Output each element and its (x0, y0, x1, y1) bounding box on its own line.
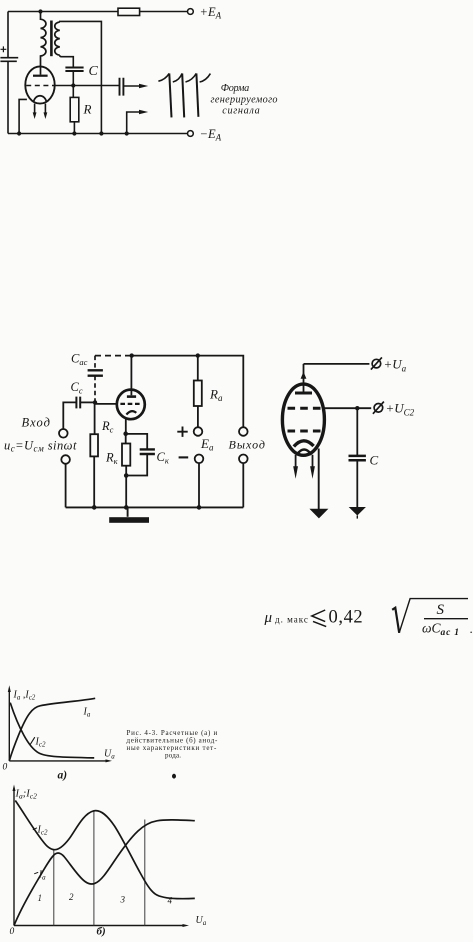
svg-text:4: 4 (168, 896, 173, 906)
svg-text:Ia;Ic2: Ia;Ic2 (15, 789, 38, 801)
node anode tap (130, 353, 134, 357)
tube V2 cathode lead (125, 419, 127, 434)
terminal Ea lower (195, 455, 204, 464)
resistor Rk (122, 444, 130, 466)
wire Rk to node (125, 466, 127, 476)
tube V2 cathode arc (126, 411, 136, 414)
divider line 1 (53, 850, 55, 926)
node grid junction (71, 83, 75, 87)
caption Рис. 4-3 (127, 729, 218, 760)
wire node to bottom rail (125, 476, 127, 508)
x axis graph a (9, 760, 106, 762)
wire top rail solid (132, 356, 244, 428)
transformer core (50, 21, 53, 57)
svg-text:ωCас 1: ωCас 1 (422, 620, 460, 638)
tube V1 cathode arc (33, 96, 46, 103)
svg-text:д. макс: д. макс (275, 615, 309, 625)
node R bottom (72, 131, 76, 135)
wire left rail (7, 12, 9, 58)
capacitor Cac (dashed leads) (94, 356, 96, 370)
tube V3 screen grid row 1 (dashed) (288, 407, 322, 410)
svg-text:Ia ,Ic2: Ia ,Ic2 (13, 690, 36, 702)
svg-text:R: R (83, 102, 92, 117)
wire cathode to ground (318, 449, 320, 510)
wire Cc to grid node (80, 401, 95, 403)
svg-text:генерируемого: генерируемого (211, 94, 278, 105)
wire screen tap to capacitor C (356, 408, 358, 455)
node Ra tap (196, 353, 200, 357)
node Ea bottom (197, 505, 202, 510)
tube V3 anode lead (303, 364, 305, 392)
filament lead right with arrow (312, 455, 314, 468)
tube V2 anode lead (130, 356, 132, 396)
wire Ea lower to bottom rail (198, 463, 200, 508)
resistor (anode supply, unlabeled) (118, 8, 140, 15)
wire screen grid to +Uc2 terminal (324, 407, 371, 409)
transformer winding L1 (41, 12, 46, 75)
svg-text:C: C (89, 64, 99, 79)
wire Ra top (197, 356, 199, 381)
tube V1 grid (dashed) (26, 85, 54, 87)
tube V3 filament arch (297, 450, 312, 455)
curve Ic2 graph b (15, 801, 195, 899)
leader line Ic2 label a (30, 737, 35, 744)
wire cathode to Ck (126, 434, 148, 449)
node Rc bottom (92, 505, 97, 510)
capacitor C (349, 456, 366, 460)
node top tap (38, 9, 42, 13)
svg-text:0: 0 (10, 927, 15, 937)
node screen bypass tap (355, 406, 359, 410)
curve Ic2 graph a (10, 703, 94, 758)
svg-text:сигнала: сигнала (222, 105, 260, 116)
svg-text:uc=Uсм sinωt: uc=Uсм sinωt (4, 438, 77, 453)
filament lead left with arrow (295, 455, 297, 468)
svg-text:+Ua: +Ua (384, 357, 407, 374)
svg-text:μ: μ (264, 610, 273, 626)
tube V3 anode (295, 392, 312, 395)
svg-text:рода.: рода. (165, 752, 181, 760)
tube V2 grid (dashed) (120, 403, 141, 405)
wire top supply rail (8, 11, 118, 13)
wire output upper with arrow (123, 85, 139, 87)
arrow on anode lead (301, 372, 307, 379)
svg-text:Cac: Cac (71, 352, 88, 368)
terminal output upper (239, 427, 248, 436)
node bottom rail center (124, 505, 129, 510)
resistor Rc (90, 434, 98, 456)
leader tick Ic2 label b (33, 828, 37, 830)
wire bottom rail (8, 133, 187, 135)
node output lower (125, 131, 129, 135)
svg-text:C: C (370, 453, 379, 468)
svg-text:Rc: Rc (101, 419, 114, 435)
curve Ia graph b (14, 820, 195, 926)
svg-text:Форма: Форма (221, 83, 250, 94)
wire Ck to node (126, 454, 147, 475)
sawtooth waveform (158, 73, 169, 81)
wire L2 bottom to capacitor C (60, 55, 74, 67)
wire top rail dashed (Cac branch) (95, 355, 132, 357)
svg-text:Ua: Ua (196, 915, 207, 927)
wire cathode node to Rk (125, 434, 127, 444)
tube V1 envelope (25, 66, 54, 103)
terminal -EA (188, 131, 194, 137)
svg-text:+UC2: +UC2 (386, 401, 415, 418)
svg-text:Ic2: Ic2 (35, 737, 46, 749)
label plus (177, 427, 187, 437)
terminal input lower (61, 455, 70, 464)
svg-text:Вход: Вход (22, 416, 51, 430)
svg-text:Ia: Ia (83, 707, 91, 719)
label minus (179, 456, 189, 458)
svg-text:Ic2: Ic2 (37, 825, 48, 837)
terminal circle-slash +Ua (372, 359, 381, 368)
wire grid to node (95, 403, 117, 405)
wire grid node to Rc (94, 402, 96, 434)
svg-text:Ua: Ua (104, 749, 115, 761)
wire to +EA terminal (140, 11, 188, 13)
terminal Ea upper (194, 427, 203, 436)
tube V3 cathode arc (294, 441, 314, 447)
svg-text:Ea: Ea (200, 436, 214, 453)
tube V1 filament lead right with arrow (44, 104, 46, 113)
capacitor Ck (140, 449, 155, 454)
capacitor electrolytic + (0, 58, 18, 62)
wire L2 top to right rail (60, 21, 102, 133)
node Rk bottom (124, 473, 129, 478)
wire Rc to bottom rail (93, 456, 95, 507)
tube V2 anode (127, 395, 136, 398)
ground (127, 507, 129, 516)
ground (cathode) (309, 509, 328, 519)
svg-text:Ia: Ia (38, 870, 46, 882)
svg-text:1: 1 (38, 893, 43, 903)
wire input lower to bottom rail (65, 463, 67, 507)
svg-text:Rк: Rк (105, 451, 119, 467)
divider line 3 (144, 820, 146, 926)
wire bottom rail (66, 506, 244, 508)
wire grid to coupling capacitor (54, 85, 119, 87)
curve Ia graph a (9, 698, 95, 760)
resistor R (70, 97, 79, 121)
node grid junction (93, 400, 97, 404)
svg-text:+EA: +EA (200, 5, 222, 20)
terminal input upper (59, 429, 68, 438)
terminal output lower (239, 455, 248, 464)
bullet mark (172, 774, 176, 779)
tube V1 anode (33, 75, 48, 77)
tube V2 envelope (117, 390, 145, 420)
svg-text:.: . (470, 621, 473, 636)
svg-text:а): а) (58, 770, 68, 782)
svg-text:3: 3 (120, 895, 126, 905)
node right rail bottom (99, 131, 103, 135)
svg-text:Выход: Выход (229, 438, 266, 452)
transformer winding L2 (55, 22, 60, 55)
y axis graph a (8, 691, 10, 761)
terminal +EA (188, 9, 194, 15)
svg-text:0,42: 0,42 (329, 608, 364, 628)
svg-text:Ra: Ra (209, 387, 223, 404)
node cathode bottom (17, 131, 21, 135)
coupling capacitor (output) (120, 78, 124, 96)
wire Ra to Ea terminal (197, 406, 199, 428)
wire output lower with arrow (127, 112, 140, 134)
wire left rail lower (7, 61, 9, 133)
wire output lower to bottom rail (242, 463, 244, 508)
x axis graph b (14, 925, 184, 927)
wire C to grid node (72, 71, 74, 97)
svg-text:Cк: Cк (157, 450, 170, 466)
tube V3 control grid row 2 (dashed) (288, 430, 322, 433)
svg-text:Cc: Cc (71, 380, 83, 396)
divider line 2 (93, 812, 95, 926)
svg-text:S: S (437, 602, 445, 618)
svg-text:0: 0 (3, 763, 8, 773)
svg-text:б): б) (97, 926, 106, 938)
wire capacitor to ground (356, 460, 358, 507)
ground (capacitor) (349, 507, 366, 516)
node cathode (123, 431, 128, 436)
capacitor Cc (76, 397, 80, 409)
leader tick Ia label b (34, 872, 38, 874)
resistor Ra (194, 381, 202, 407)
tube V3 envelope (282, 384, 324, 455)
wire R to bottom rail (73, 122, 75, 134)
wire cathode to bottom rail (19, 99, 27, 133)
tube V1 filament lead left with arrow (34, 104, 36, 113)
y axis graph b (13, 790, 15, 926)
terminal circle-slash +Uc2 (374, 404, 383, 413)
svg-text:2: 2 (69, 892, 74, 902)
wire Cc to input terminal (63, 402, 76, 429)
svg-text:−EA: −EA (200, 127, 222, 143)
wire anode to +Ua terminal (304, 363, 370, 365)
formula mu_d.max <= 0,42 sqrt(S/(w C_ac1)) (264, 599, 473, 639)
capacitor C (65, 68, 83, 72)
